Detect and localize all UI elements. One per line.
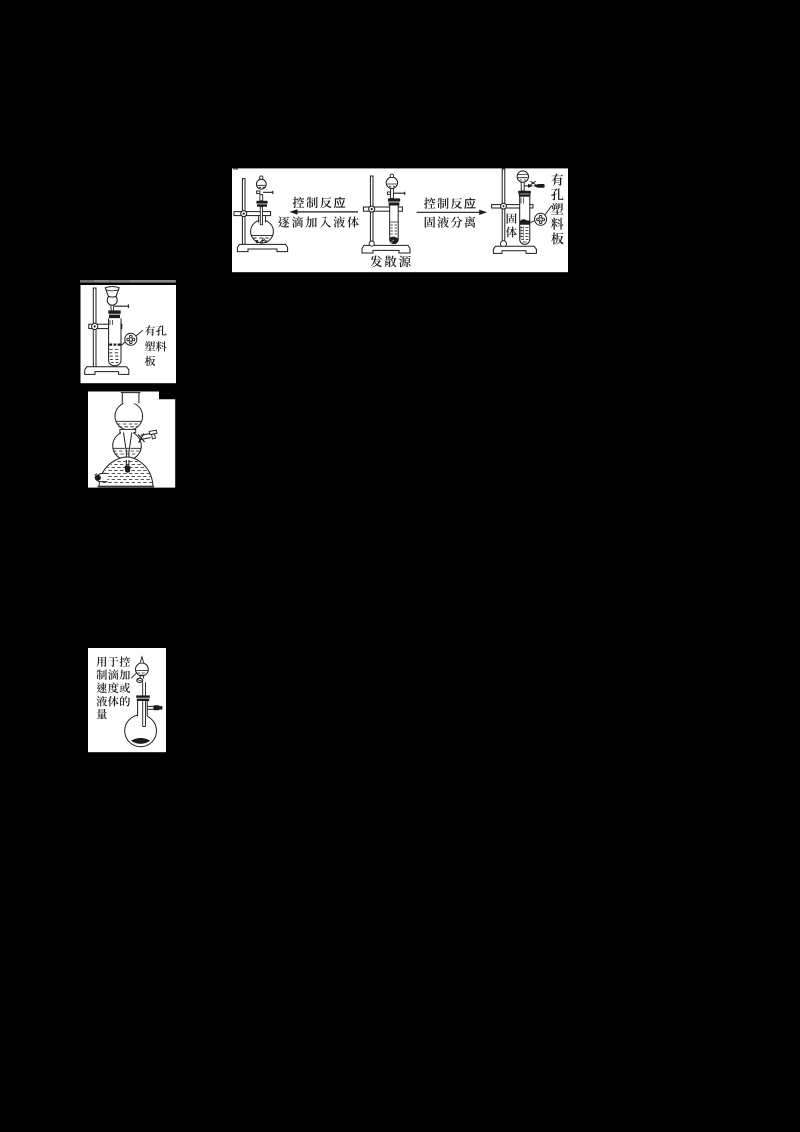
panel 1 background xyxy=(232,168,568,272)
label 发散源 xyxy=(370,256,382,268)
pointer lines to plate symbol xyxy=(530,221,535,223)
tube top hatch xyxy=(521,198,523,204)
kipp bottom dome xyxy=(99,457,153,486)
label 固体 (vertical) xyxy=(507,213,517,224)
side valve (black bowtie + hose) xyxy=(524,185,528,187)
thistle funnel bulb xyxy=(107,295,117,305)
flask solid 4 xyxy=(131,738,150,744)
iron stand (middle): pole foot xyxy=(369,241,374,246)
iron stand (left): clamp bar xyxy=(234,212,271,216)
tube2 liquid hatch xyxy=(109,350,118,363)
stopcock2 lever xyxy=(115,304,129,308)
dropping funnel bulb (middle) xyxy=(386,177,397,188)
kipp top liquid xyxy=(116,420,141,422)
kipp middle sphere xyxy=(113,432,142,461)
kipp flange xyxy=(120,429,136,432)
iron stand (middle): pole xyxy=(370,176,373,246)
perforated-plate symbol circle xyxy=(535,213,547,225)
label 有孔塑料板 (vertical) xyxy=(551,174,563,186)
gray divider bar xyxy=(80,280,176,283)
flask solid dots xyxy=(256,239,267,244)
label 用于控制滴加速度或液体的量 xyxy=(97,657,107,667)
dropping funnel bulb (left) xyxy=(256,179,266,189)
iron stand (left): clamp knob xyxy=(241,211,247,217)
stand2: base xyxy=(85,367,129,375)
thistle funnel cup xyxy=(105,287,119,298)
label 逐滴加入液体 xyxy=(278,216,289,227)
round-bottom flask xyxy=(251,220,274,243)
iron stand (right): pole foot ball xyxy=(500,241,506,247)
stem inside neck 4 xyxy=(143,701,146,726)
kipp top opening xyxy=(123,393,138,404)
label 控制反应 (arrow2) xyxy=(424,198,435,209)
iron stand (left): base xyxy=(237,244,287,251)
funnel bulb (right) xyxy=(517,171,528,182)
kipp thistle tube xyxy=(124,432,132,467)
arrow left (控制反应/逐滴加入液体) xyxy=(294,211,358,213)
test tube (middle) xyxy=(390,206,399,244)
iron stand (right): pole xyxy=(502,169,505,242)
iron stand (middle): clamp bar xyxy=(363,207,402,211)
tube2 top hatch xyxy=(110,320,112,325)
panel 3 background xyxy=(88,392,175,488)
flask liquid level xyxy=(252,234,273,236)
stand2: clamp knob xyxy=(92,323,98,329)
stopper bands 4 xyxy=(136,695,150,697)
stopcock oval 4 xyxy=(140,676,144,679)
test tube (right) xyxy=(520,193,530,244)
plate symbol circle2 xyxy=(125,333,137,345)
dropping funnel stopcock (middle) xyxy=(394,192,405,195)
dropping funnel stem (middle) xyxy=(391,188,394,198)
iron stand (right): base xyxy=(493,246,536,253)
funnel stem 4 xyxy=(143,682,146,695)
kipp funnel tube tip (dark) xyxy=(126,460,128,471)
stand2: clamp bar xyxy=(89,324,122,328)
iron stand (right): clamp knob xyxy=(501,203,507,209)
arrow right (控制反应/固液分离) xyxy=(417,211,482,213)
kipp bottom nozzle xyxy=(96,473,107,482)
flask neck xyxy=(259,216,266,223)
perforated plate + solid (black blob) xyxy=(520,219,530,225)
iron stand (middle): base xyxy=(362,245,410,253)
side arm 4 xyxy=(147,706,153,709)
test tube solid (black) xyxy=(390,237,398,242)
funnel bulb 4 xyxy=(136,663,149,676)
kipp middle liquid xyxy=(113,447,142,449)
iron stand (right): clamp bar xyxy=(492,205,533,208)
kipp top sphere xyxy=(115,402,143,430)
dropping funnel stem (left) xyxy=(260,195,263,201)
test tube liquid hatch xyxy=(390,222,398,234)
liquid hatch below plate xyxy=(520,228,528,243)
test tube2 xyxy=(109,318,121,365)
rubber stopper (right) xyxy=(518,191,531,194)
kipp stopcock xyxy=(141,434,151,440)
scan speck panel1 top-left xyxy=(233,168,238,169)
dropping funnel top knob (middle) xyxy=(390,174,394,178)
panel 2 background xyxy=(81,285,177,383)
rubber stopper (left) xyxy=(256,201,267,204)
label 有孔/塑料/板 xyxy=(145,325,155,336)
stand2: pole xyxy=(93,288,96,367)
iron stand (left): pole xyxy=(242,179,245,246)
label 控制反应 (arrow1) xyxy=(293,197,304,208)
rubber stopper (middle) xyxy=(388,198,400,201)
iron stand (middle): clamp knob xyxy=(369,206,375,212)
pointer lines 2 xyxy=(121,342,125,346)
flask neck 4 xyxy=(138,701,148,717)
pointer line 4 xyxy=(131,673,137,679)
dropping funnel stopcock (left) xyxy=(263,191,273,194)
label 固液分离 xyxy=(425,217,435,228)
funnel stem (right) xyxy=(521,182,524,191)
dropping funnel top knob (left) xyxy=(260,176,263,179)
rubber stopper2 xyxy=(108,310,120,313)
panel 4 background xyxy=(88,648,166,752)
flask 4 xyxy=(125,715,157,747)
funnel top stopper 4 xyxy=(140,657,143,663)
perforated plate in tube2 xyxy=(109,344,120,346)
funnel stem2 xyxy=(111,306,114,311)
